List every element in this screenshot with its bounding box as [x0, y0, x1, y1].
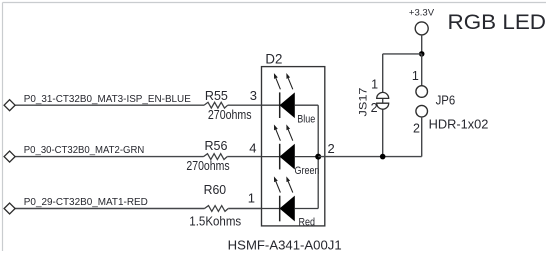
- svg-text:Green: Green: [295, 165, 320, 177]
- svg-text:RGB LED: RGB LED: [448, 10, 547, 34]
- LED blue cathode bar: [279, 92, 281, 118]
- net RED wire: [15, 208, 205, 210]
- svg-text:1: 1: [371, 78, 378, 92]
- wire R60 to D2: [228, 208, 261, 210]
- resistor R60: [205, 206, 229, 212]
- svg-text:JP6: JP6: [436, 93, 456, 108]
- LED package D2 box: [262, 67, 325, 226]
- svg-text:+3.3V: +3.3V: [409, 7, 435, 18]
- wire junction to JS17 branch: [383, 53, 422, 55]
- LED blue: cathode wire: [262, 104, 280, 106]
- LED red: cathode wire: [262, 208, 280, 210]
- LED red triangle: [280, 197, 294, 221]
- header JP6 pin1 circle: [416, 86, 428, 98]
- LED green: cathode wire: [262, 156, 280, 158]
- svg-text:R55: R55: [205, 88, 228, 103]
- svg-text:2: 2: [371, 101, 378, 115]
- resistor R55: [204, 102, 228, 108]
- svg-text:1: 1: [412, 69, 419, 83]
- svg-text:P0_30-CT32B0_MAT2-GRN: P0_30-CT32B0_MAT2-GRN: [24, 145, 145, 156]
- svg-text:Red: Red: [299, 217, 316, 229]
- LED blue anode wire: [294, 104, 318, 106]
- wire JP6 pin2 down: [421, 117, 423, 157]
- connector diamond RED: [4, 203, 15, 214]
- svg-text:P0_29-CT32B0_MAT1-RED: P0_29-CT32B0_MAT1-RED: [24, 197, 148, 208]
- svg-text:270ohms: 270ohms: [186, 158, 230, 173]
- LED green triangle: [280, 145, 294, 169]
- wire junction to JP6: [421, 54, 423, 86]
- svg-text:1: 1: [248, 190, 255, 205]
- LED red emission arrows: [275, 178, 293, 193]
- frame border left: [2, 3, 4, 252]
- connector diamond GRN: [4, 151, 15, 162]
- frame border top: [3, 2, 547, 4]
- LED green emission arrows: [275, 126, 293, 141]
- svg-text:R60: R60: [204, 182, 227, 197]
- anode bus wire: [317, 105, 319, 208]
- svg-text:HSMF-A341-A00J1: HSMF-A341-A00J1: [228, 237, 342, 252]
- svg-text:4: 4: [249, 141, 256, 156]
- svg-text:P0_31-CT32B0_MAT3-ISP_EN-BLUE: P0_31-CT32B0_MAT3-ISP_EN-BLUE: [24, 94, 191, 105]
- svg-text:1.5Kohms: 1.5Kohms: [189, 214, 241, 229]
- LED green anode wire: [294, 156, 318, 158]
- svg-text:Blue: Blue: [297, 114, 315, 126]
- pin2 output wire: [318, 156, 422, 158]
- resistor R56: [204, 154, 228, 160]
- svg-text:R56: R56: [205, 138, 228, 153]
- svg-text:2: 2: [413, 121, 420, 135]
- svg-text:JS17: JS17: [358, 88, 370, 117]
- wire JS17 vertical: [382, 54, 384, 157]
- power circle: [415, 22, 428, 35]
- LED red cathode bar: [279, 196, 281, 222]
- svg-text:D2: D2: [265, 51, 282, 66]
- wire R56 to D2: [227, 156, 261, 158]
- wire R55 to D2: [228, 104, 262, 106]
- junction bus/pin2: [315, 154, 321, 160]
- net BLUE wire: [15, 104, 204, 106]
- connector diamond BLUE: [4, 100, 15, 111]
- svg-text:2: 2: [328, 141, 335, 156]
- net GRN wire: [15, 156, 204, 158]
- wire power to junction: [421, 35, 423, 54]
- LED blue emission arrows: [275, 75, 293, 90]
- LED red anode wire: [294, 208, 318, 210]
- junction JS17 bottom: [380, 154, 386, 160]
- junction top: [419, 51, 425, 57]
- header JP6 pin2 circle: [416, 105, 428, 117]
- svg-text:3: 3: [250, 88, 257, 103]
- LED blue triangle: [280, 93, 294, 117]
- jumper JS17: [377, 92, 389, 109]
- svg-text:270ohms: 270ohms: [208, 107, 252, 122]
- LED green cathode bar: [279, 144, 281, 170]
- svg-text:HDR-1x02: HDR-1x02: [429, 116, 489, 131]
